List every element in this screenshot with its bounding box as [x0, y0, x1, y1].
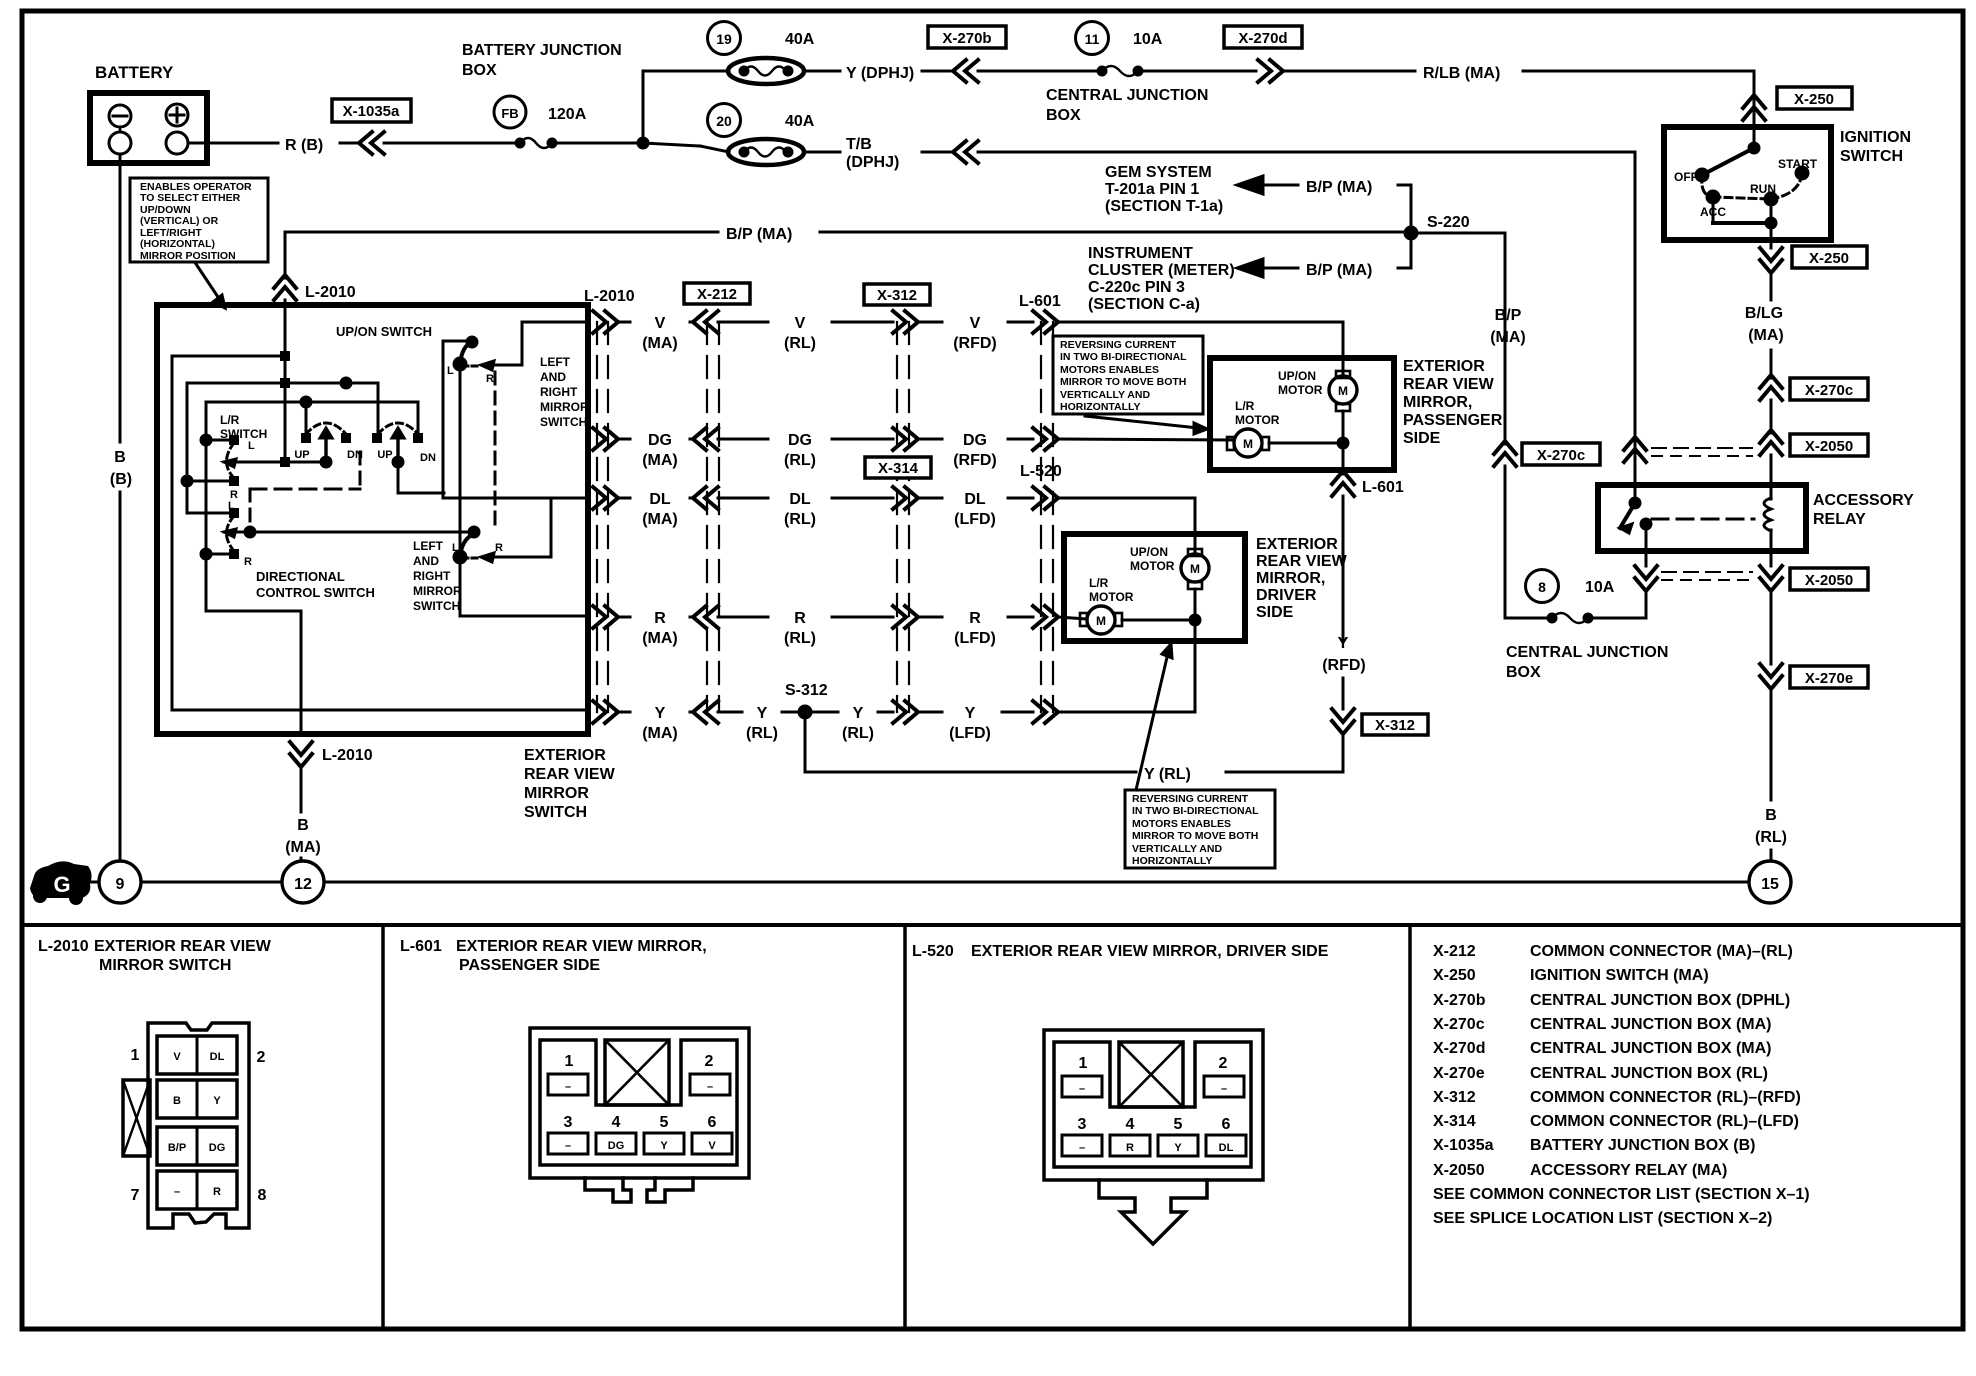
- svg-text:RELAY: RELAY: [1813, 511, 1866, 528]
- svg-text:B/P: B/P: [168, 1142, 186, 1154]
- wire H-B: [187, 383, 378, 434]
- linkage dashes vertical: [494, 372, 497, 530]
- label X-212 box: [684, 283, 750, 304]
- svg-text:MOTORS ENABLES: MOTORS ENABLES: [1060, 364, 1159, 376]
- svg-text:DL: DL: [789, 491, 811, 508]
- wire pivot bus H-D: [224, 461, 328, 464]
- svg-text:(B): (B): [110, 471, 132, 488]
- svg-text:AND: AND: [413, 554, 439, 568]
- svg-text:8: 8: [258, 1187, 267, 1204]
- svg-text:X-312: X-312: [877, 287, 917, 304]
- svg-text:L-601: L-601: [400, 938, 442, 955]
- svg-text:L: L: [228, 500, 235, 512]
- svg-text:(MA): (MA): [1490, 329, 1526, 346]
- svg-text:Y: Y: [655, 705, 666, 722]
- svg-text:1: 1: [131, 1047, 140, 1064]
- wire H-A: [172, 356, 285, 710]
- svg-text:B/P (MA): B/P (MA): [1306, 262, 1372, 279]
- connector L-2010 pin row 3: [157, 1127, 237, 1165]
- svg-text:BATTERY JUNCTION: BATTERY JUNCTION: [462, 42, 622, 59]
- svg-text:15: 15: [1761, 876, 1779, 893]
- connector chevron X-312 down-pointing: [1332, 709, 1354, 734]
- svg-text:MIRROR: MIRROR: [524, 785, 589, 802]
- svg-text:R: R: [969, 610, 981, 627]
- wire G to node 9: [90, 881, 99, 884]
- svg-text:INSTRUMENT: INSTRUMENT: [1088, 245, 1193, 262]
- svg-text:X-270e: X-270e: [1433, 1065, 1485, 1082]
- svg-text:–: –: [707, 1081, 713, 1093]
- wire T/B (DPHJ): [804, 151, 840, 154]
- connector L-2010 pin row 1: [157, 1036, 237, 1074]
- svg-text:DG: DG: [788, 432, 812, 449]
- svg-text:L-520: L-520: [1020, 463, 1062, 480]
- svg-text:DN: DN: [420, 452, 436, 464]
- wire B/P down to fuse 8: [1504, 466, 1507, 618]
- svg-text:R: R: [486, 373, 494, 385]
- svg-text:DL: DL: [649, 491, 671, 508]
- svg-text:HORIZONTALLY: HORIZONTALLY: [1132, 855, 1213, 867]
- wire B/P (MA) main horizontal: [285, 231, 718, 234]
- exterior rear view mirror passenger side box: [1210, 358, 1394, 470]
- svg-text:TO SELECT EITHER: TO SELECT EITHER: [140, 192, 241, 204]
- wire H-C: [206, 402, 418, 434]
- svg-text:COMMON CONNECTOR (MA)–(RL): COMMON CONNECTOR (MA)–(RL): [1530, 943, 1793, 960]
- svg-text:1: 1: [565, 1053, 574, 1070]
- svg-text:(RL): (RL): [784, 511, 816, 528]
- svg-text:R: R: [495, 542, 503, 554]
- ignition contacts: [1753, 127, 1756, 148]
- svg-text:SWITCH: SWITCH: [540, 415, 587, 429]
- svg-text:X-312: X-312: [1433, 1089, 1476, 1106]
- svg-text:PASSENGER: PASSENGER: [1403, 412, 1503, 429]
- note box enables operator: [130, 178, 268, 262]
- wire row R to driver motor: [1058, 617, 1087, 619]
- svg-text:9: 9: [116, 876, 125, 893]
- svg-text:DG: DG: [608, 1140, 625, 1152]
- svg-text:T/B: T/B: [846, 136, 872, 153]
- svg-text:X-314: X-314: [878, 460, 919, 477]
- svg-text:(RL): (RL): [746, 725, 778, 742]
- wire DL row inside: [443, 497, 588, 500]
- note reversing current driver: [1125, 790, 1275, 868]
- svg-text:X-270c: X-270c: [1433, 1016, 1485, 1033]
- svg-text:(VERTICAL) OR: (VERTICAL) OR: [140, 215, 219, 227]
- svg-text:V: V: [173, 1051, 181, 1063]
- svg-text:4: 4: [612, 1114, 621, 1131]
- wire row R: [593, 606, 618, 628]
- svg-text:UP/ON: UP/ON: [1130, 545, 1168, 559]
- svg-text:SEE COMMON CONNECTOR LIST (SEC: SEE COMMON CONNECTOR LIST (SECTION X–1): [1433, 1186, 1810, 1203]
- wire row V to passenger motor: [1058, 321, 1343, 324]
- node 15: [1749, 861, 1791, 903]
- panel divider 1: [381, 925, 385, 1329]
- svg-text:CLUSTER (METER): CLUSTER (METER): [1088, 262, 1235, 279]
- svg-text:R: R: [213, 1186, 221, 1198]
- svg-text:120A: 120A: [548, 106, 587, 123]
- svg-text:Y (DPHJ): Y (DPHJ): [846, 65, 914, 82]
- svg-text:V: V: [970, 315, 981, 332]
- svg-text:X-270d: X-270d: [1433, 1040, 1485, 1057]
- svg-text:R: R: [244, 556, 252, 568]
- connector L-601 shroud: [540, 1040, 737, 1165]
- svg-text:B/P (MA): B/P (MA): [1306, 179, 1372, 196]
- wire motor common down through L-601: [1342, 443, 1345, 474]
- svg-text:RIGHT: RIGHT: [413, 569, 451, 583]
- arrow note to driver box: [1136, 653, 1168, 790]
- connector L-2010 side tab: [123, 1080, 150, 1156]
- svg-text:X-212: X-212: [697, 286, 737, 303]
- svg-text:X-314: X-314: [1433, 1113, 1476, 1130]
- svg-text:MOTOR: MOTOR: [1089, 590, 1134, 604]
- svg-text:DG: DG: [209, 1142, 226, 1154]
- svg-text:(HORIZONTAL): (HORIZONTAL): [140, 238, 215, 250]
- svg-text:SIDE: SIDE: [1403, 430, 1441, 447]
- connector L-520 lock tab: [1119, 1042, 1183, 1107]
- wire Y (DPHJ): [804, 70, 840, 73]
- svg-text:L/R: L/R: [1235, 399, 1255, 413]
- svg-text:M: M: [1243, 437, 1253, 451]
- upper mirror select switch: [522, 322, 588, 364]
- svg-text:(RFD): (RFD): [953, 335, 997, 352]
- up/dn switch group 2: [372, 433, 382, 443]
- svg-text:R: R: [1126, 1142, 1134, 1154]
- svg-text:B: B: [173, 1095, 181, 1107]
- svg-text:COMMON CONNECTOR (RL)–(RFD): COMMON CONNECTOR (RL)–(RFD): [1530, 1089, 1801, 1106]
- label X-1035a: [332, 99, 411, 122]
- svg-text:2: 2: [1219, 1055, 1228, 1072]
- svg-text:LEFT: LEFT: [540, 355, 571, 369]
- connector L-601 outer: [530, 1028, 749, 1178]
- svg-text:19: 19: [716, 31, 732, 47]
- wire pivot link vertical: [459, 364, 462, 557]
- svg-text:2: 2: [257, 1049, 266, 1066]
- fuse 8 10A: [1526, 570, 1559, 603]
- connector chevron X-2050 upper up-pointing: [1760, 430, 1782, 455]
- svg-text:S-312: S-312: [785, 682, 828, 699]
- connector L-601 lock tab: [605, 1040, 669, 1105]
- connector chevron X-270b left-pointing: [953, 60, 978, 82]
- wire pivot to R row: [460, 557, 588, 616]
- svg-text:G: G: [53, 872, 70, 897]
- svg-text:CENTRAL JUNCTION BOX (MA): CENTRAL JUNCTION BOX (MA): [1530, 1016, 1771, 1033]
- svg-text:V: V: [708, 1140, 716, 1152]
- L/R switch group lower: [187, 512, 234, 515]
- svg-text:CENTRAL JUNCTION: CENTRAL JUNCTION: [1506, 644, 1668, 661]
- battery B1: [90, 93, 207, 163]
- svg-text:(LFD): (LFD): [954, 630, 996, 647]
- svg-text:X-270e: X-270e: [1805, 670, 1853, 687]
- svg-text:EXTERIOR: EXTERIOR: [1403, 358, 1485, 375]
- label X-270d: [1224, 26, 1302, 48]
- svg-text:REAR VIEW: REAR VIEW: [1403, 376, 1495, 393]
- svg-text:BOX: BOX: [1506, 664, 1541, 681]
- svg-text:IN TWO BI-DIRECTIONAL: IN TWO BI-DIRECTIONAL: [1060, 351, 1187, 363]
- wire L-2010 entry: [284, 232, 287, 278]
- note reversing current passenger: [1053, 336, 1203, 414]
- L/R switch group upper: [224, 459, 236, 467]
- wire row V: [593, 311, 618, 333]
- svg-text:MIRROR POSITION: MIRROR POSITION: [140, 250, 236, 262]
- svg-text:6: 6: [708, 1114, 717, 1131]
- svg-text:V: V: [655, 315, 666, 332]
- svg-text:CENTRAL JUNCTION BOX (MA): CENTRAL JUNCTION BOX (MA): [1530, 1040, 1771, 1057]
- connector L-520 outer: [1044, 1030, 1263, 1180]
- svg-text:EXTERIOR REAR VIEW: EXTERIOR REAR VIEW: [94, 938, 272, 955]
- svg-text:REAR VIEW: REAR VIEW: [1256, 553, 1348, 570]
- svg-text:SEE SPLICE LOCATION LIST (SECT: SEE SPLICE LOCATION LIST (SECTION X–2): [1433, 1210, 1772, 1227]
- svg-text:40A: 40A: [785, 31, 815, 48]
- svg-text:(RFD): (RFD): [1322, 657, 1366, 674]
- svg-text:SIDE: SIDE: [1256, 604, 1294, 621]
- svg-text:X-2050: X-2050: [1805, 438, 1853, 455]
- connector L-2010 body: [148, 1023, 249, 1228]
- svg-text:PASSENGER SIDE: PASSENGER SIDE: [459, 957, 600, 974]
- svg-text:MIRROR,: MIRROR,: [1256, 570, 1325, 587]
- svg-text:REAR VIEW: REAR VIEW: [524, 766, 616, 783]
- svg-text:(RL): (RL): [842, 725, 874, 742]
- wire S-312 branch Y (RL): [805, 712, 1136, 772]
- svg-text:SWITCH: SWITCH: [1840, 148, 1903, 165]
- svg-text:2: 2: [705, 1053, 714, 1070]
- svg-text:L: L: [452, 542, 459, 554]
- svg-text:40A: 40A: [785, 113, 815, 130]
- svg-text:B/LG: B/LG: [1745, 305, 1783, 322]
- svg-text:L/R: L/R: [220, 413, 240, 427]
- connector chevron X-270c right up-pointing: [1760, 375, 1782, 400]
- fuse 20 40A: [708, 104, 741, 137]
- svg-text:R: R: [794, 610, 806, 627]
- svg-text:(RL): (RL): [784, 630, 816, 647]
- svg-text:X-270d: X-270d: [1238, 30, 1287, 47]
- svg-text:ACCESSORY: ACCESSORY: [1813, 492, 1914, 509]
- svg-text:(MA): (MA): [642, 335, 678, 352]
- connector chevron X-270c on B/P line up-pointing: [1494, 441, 1516, 466]
- fuse FB 120A on wire: [516, 139, 524, 147]
- wire row DL to driver motor: [1058, 498, 1195, 552]
- wire row DG: [593, 428, 618, 450]
- svg-text:VERTICALLY AND: VERTICALLY AND: [1132, 843, 1222, 855]
- divider between schematic and connector panels: [22, 923, 1963, 927]
- svg-text:X-250: X-250: [1794, 91, 1834, 108]
- svg-text:MIRROR: MIRROR: [413, 584, 462, 598]
- svg-text:RIGHT: RIGHT: [540, 385, 578, 399]
- svg-text:(RFD): (RFD): [953, 452, 997, 469]
- connector chevron X-250 upper up-pointing: [1743, 95, 1765, 120]
- svg-text:DL: DL: [964, 491, 986, 508]
- svg-text:B/P (MA): B/P (MA): [726, 226, 792, 243]
- svg-text:8: 8: [1538, 579, 1546, 595]
- svg-text:Y: Y: [1174, 1142, 1182, 1154]
- svg-text:ACCESSORY RELAY (MA): ACCESSORY RELAY (MA): [1530, 1162, 1727, 1179]
- node S-312: [799, 706, 811, 718]
- ground symbol G: [30, 861, 92, 898]
- wire row DG to passenger motor: [1058, 439, 1234, 440]
- svg-text:(MA): (MA): [642, 725, 678, 742]
- svg-text:(DPHJ): (DPHJ): [846, 154, 899, 171]
- node battery junction: [638, 138, 648, 148]
- connector chevron X-2050 lower left down-pointing: [1645, 551, 1648, 566]
- svg-text:–: –: [1079, 1083, 1085, 1095]
- svg-text:Y: Y: [1338, 635, 1349, 652]
- svg-text:12: 12: [294, 876, 312, 893]
- svg-text:MIRROR: MIRROR: [540, 400, 589, 414]
- svg-text:UP: UP: [294, 449, 309, 461]
- svg-text:T-201a PIN 1: T-201a PIN 1: [1105, 181, 1199, 198]
- svg-text:3: 3: [564, 1114, 573, 1131]
- label X-314 box: [865, 457, 931, 478]
- svg-text:4: 4: [1126, 1116, 1135, 1133]
- svg-text:C-220c PIN 3: C-220c PIN 3: [1088, 279, 1185, 296]
- connector chevron X-2050 on T/B line up-pointing: [1624, 437, 1646, 462]
- svg-text:(MA): (MA): [1748, 327, 1784, 344]
- svg-text:HORIZONTALLY: HORIZONTALLY: [1060, 401, 1141, 413]
- svg-text:(MA): (MA): [642, 452, 678, 469]
- wire motor common down to Y row: [1194, 620, 1197, 712]
- exterior rear view mirror driver side box: [1064, 534, 1245, 641]
- wire pivot2 to V row: [398, 462, 444, 493]
- svg-text:X-270b: X-270b: [942, 30, 991, 47]
- svg-text:IGNITION: IGNITION: [1840, 129, 1911, 146]
- svg-text:IGNITION SWITCH (MA): IGNITION SWITCH (MA): [1530, 967, 1709, 984]
- svg-text:L-2010: L-2010: [584, 288, 635, 305]
- node S-220: [1405, 227, 1417, 239]
- svg-text:L-601: L-601: [1019, 293, 1061, 310]
- svg-text:6: 6: [1222, 1116, 1231, 1133]
- svg-text:M: M: [1096, 614, 1106, 628]
- svg-text:5: 5: [1174, 1116, 1183, 1133]
- relay coil on B/LG line: [1764, 498, 1771, 531]
- svg-text:X-270b: X-270b: [1433, 992, 1486, 1009]
- svg-text:EXTERIOR: EXTERIOR: [524, 747, 606, 764]
- svg-text:CENTRAL JUNCTION: CENTRAL JUNCTION: [1046, 87, 1208, 104]
- relay contact: [1634, 485, 1637, 503]
- svg-text:X-1035a: X-1035a: [1433, 1137, 1494, 1154]
- svg-text:MOTOR: MOTOR: [1235, 413, 1280, 427]
- svg-text:MOTOR: MOTOR: [1130, 559, 1175, 573]
- svg-text:1: 1: [1079, 1055, 1088, 1072]
- svg-text:MIRROR TO MOVE BOTH: MIRROR TO MOVE BOTH: [1132, 830, 1258, 842]
- lower mirror select switch: [469, 527, 479, 537]
- svg-text:EXTERIOR: EXTERIOR: [1256, 536, 1338, 553]
- ignition switch box: [1664, 127, 1831, 240]
- svg-text:M: M: [1338, 384, 1348, 398]
- fuse 19 40A: [708, 22, 741, 55]
- svg-text:(RL): (RL): [784, 452, 816, 469]
- svg-text:IN TWO BI-DIRECTIONAL: IN TWO BI-DIRECTIONAL: [1132, 805, 1259, 817]
- svg-text:VERTICALLY AND: VERTICALLY AND: [1060, 389, 1150, 401]
- svg-text:CENTRAL JUNCTION BOX (DPHL): CENTRAL JUNCTION BOX (DPHL): [1530, 992, 1790, 1009]
- wire B (RL): [1770, 688, 1773, 800]
- svg-text:M: M: [1190, 562, 1200, 576]
- arrow to GEM: [1237, 176, 1263, 194]
- svg-text:FB: FB: [501, 106, 518, 121]
- svg-text:R/LB (MA): R/LB (MA): [1423, 65, 1500, 82]
- svg-text:OFF: OFF: [1674, 170, 1698, 184]
- relay linkage dashes: [1652, 518, 1754, 521]
- svg-text:(MA): (MA): [642, 511, 678, 528]
- svg-text:3: 3: [1078, 1116, 1087, 1133]
- svg-text:MOTORS ENABLES: MOTORS ENABLES: [1132, 818, 1231, 830]
- svg-text:DG: DG: [648, 432, 672, 449]
- wire row Y: [593, 701, 618, 723]
- svg-text:R: R: [654, 610, 666, 627]
- svg-text:7: 7: [131, 1187, 140, 1204]
- wire B/P vertical at S-220: [1410, 185, 1413, 268]
- svg-text:(SECTION C-a): (SECTION C-a): [1088, 296, 1200, 313]
- svg-text:L: L: [447, 365, 454, 377]
- panel divider 2: [903, 925, 907, 1329]
- svg-text:BATTERY JUNCTION BOX (B): BATTERY JUNCTION BOX (B): [1530, 1137, 1755, 1154]
- linkage dashes: [250, 488, 360, 491]
- connector L-520 shroud: [1054, 1042, 1251, 1167]
- svg-text:L-520: L-520: [912, 943, 954, 960]
- connector chevron X-1035a left-pointing: [359, 132, 384, 154]
- svg-text:X-270c: X-270c: [1537, 447, 1585, 464]
- svg-text:REVERSING CURRENT: REVERSING CURRENT: [1060, 339, 1177, 351]
- svg-text:V: V: [795, 315, 806, 332]
- wire row DL: [593, 487, 618, 509]
- svg-text:EXTERIOR REAR VIEW MIRROR,: EXTERIOR REAR VIEW MIRROR,: [456, 938, 707, 955]
- svg-text:10A: 10A: [1133, 31, 1163, 48]
- svg-text:UP/ON SWITCH: UP/ON SWITCH: [336, 324, 432, 339]
- svg-text:AND: AND: [540, 370, 566, 384]
- twisted pair dashes upper: [1652, 447, 1752, 449]
- arrow note to passenger box: [1085, 416, 1198, 428]
- wire V into up/dn motor: [1342, 322, 1345, 374]
- svg-text:RUN: RUN: [1750, 182, 1776, 196]
- svg-text:SWITCH: SWITCH: [413, 599, 460, 613]
- fuse 11 10A on wire: [1076, 22, 1109, 55]
- svg-text:UP/ON: UP/ON: [1278, 369, 1316, 383]
- svg-text:CENTRAL JUNCTION BOX (RL): CENTRAL JUNCTION BOX (RL): [1530, 1065, 1768, 1082]
- svg-text:Y: Y: [757, 705, 768, 722]
- svg-text:(LFD): (LFD): [954, 511, 996, 528]
- arrow from note to switch box: [196, 264, 222, 303]
- svg-text:(SECTION T-1a): (SECTION T-1a): [1105, 198, 1223, 215]
- svg-text:L-2010: L-2010: [305, 284, 356, 301]
- svg-text:Y (RL): Y (RL): [1144, 766, 1191, 783]
- svg-text:REVERSING CURRENT: REVERSING CURRENT: [1132, 793, 1249, 805]
- common connector dashed pair L-2010 col: [596, 322, 598, 712]
- svg-text:LEFT: LEFT: [413, 539, 444, 553]
- panel divider 3: [1408, 925, 1412, 1329]
- svg-text:(LFD): (LFD): [949, 725, 991, 742]
- svg-text:Y: Y: [853, 705, 864, 722]
- svg-text:Y: Y: [660, 1140, 668, 1152]
- wire main vertical feed inside switch: [284, 308, 287, 462]
- svg-text:GEM SYSTEM: GEM SYSTEM: [1105, 164, 1212, 181]
- svg-text:5: 5: [660, 1114, 669, 1131]
- svg-text:DIRECTIONAL: DIRECTIONAL: [256, 569, 345, 584]
- svg-text:20: 20: [716, 113, 732, 129]
- svg-text:X-312: X-312: [1375, 717, 1415, 734]
- svg-text:L: L: [248, 440, 255, 452]
- svg-text:START: START: [1778, 157, 1818, 171]
- connector chevron X-270d right-pointing: [1258, 60, 1283, 82]
- svg-text:B: B: [1765, 807, 1777, 824]
- wire R (B) battery to junction: [188, 142, 278, 145]
- wire B/LG (MA): [1770, 273, 1773, 300]
- svg-text:–: –: [1221, 1083, 1227, 1095]
- svg-text:B: B: [297, 817, 309, 834]
- svg-text:MIRROR,: MIRROR,: [1403, 394, 1472, 411]
- svg-text:BOX: BOX: [1046, 107, 1081, 124]
- svg-text:UP: UP: [377, 449, 392, 461]
- svg-text:DRIVER: DRIVER: [1256, 587, 1317, 604]
- connector chevron X-270b lower left-pointing: [953, 141, 978, 163]
- twisted pair dashes lower: [1662, 571, 1752, 573]
- svg-text:X-250: X-250: [1433, 967, 1476, 984]
